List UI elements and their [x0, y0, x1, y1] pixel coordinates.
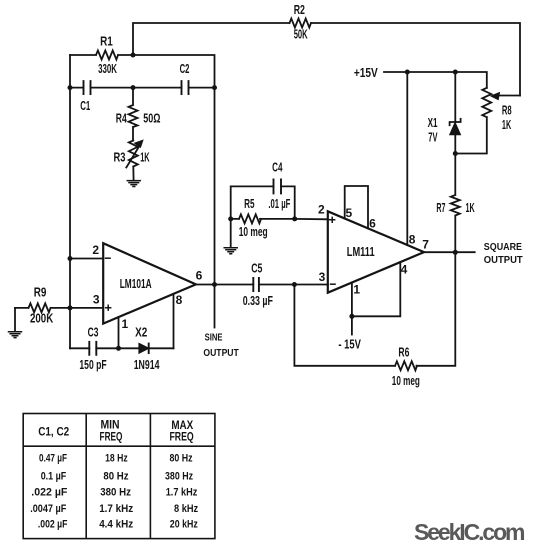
- diode X2 1N914: [139, 344, 149, 354]
- wire LM101A pin 8: [173, 294, 175, 349]
- node square output junction: [453, 250, 458, 255]
- svg-text:10 meg: 10 meg: [392, 374, 420, 388]
- svg-text:3: 3: [93, 293, 100, 307]
- node C5 R6 junction: [292, 282, 297, 287]
- svg-text:R2: R2: [294, 2, 305, 17]
- capacitor C2: [133, 87, 215, 89]
- svg-text:6: 6: [369, 216, 376, 230]
- node pin3 rail junction: [68, 305, 73, 310]
- svg-text:SQUARE: SQUARE: [484, 241, 522, 253]
- svg-text:3: 3: [319, 270, 326, 284]
- svg-text:R3: R3: [114, 150, 126, 165]
- svg-text:0.1 µF: 0.1 µF: [41, 471, 67, 483]
- svg-text:R1: R1: [100, 34, 113, 49]
- svg-text:C2: C2: [180, 61, 190, 76]
- svg-text:SeekIC.com: SeekIC.com: [414, 519, 526, 545]
- plus LM111 pin2: [329, 217, 335, 223]
- svg-text:20 kHz: 20 kHz: [170, 519, 198, 531]
- capacitor C1: [70, 87, 133, 89]
- ground below R9: [9, 332, 22, 338]
- node R1 top junction: [131, 53, 136, 58]
- svg-text:X1: X1: [428, 115, 438, 130]
- resistor R6: [395, 361, 417, 370]
- svg-text:C3: C3: [88, 324, 99, 339]
- capacitor C4: [274, 179, 282, 193]
- wire LM111 pin 7 square output: [424, 251, 475, 253]
- svg-text:2: 2: [92, 243, 99, 257]
- svg-text:6: 6: [196, 269, 203, 283]
- resistor R9: [15, 303, 70, 312]
- wire output LM101A to C5: [196, 284, 295, 286]
- polarity marks: [105, 217, 336, 311]
- svg-text:C5: C5: [251, 261, 262, 276]
- svg-text:330K: 330K: [98, 61, 117, 76]
- svg-text:5: 5: [345, 206, 352, 220]
- capacitor C3: [89, 342, 96, 355]
- op-amp U1 LM101A triangle: [103, 243, 196, 323]
- wire C4 loop: [231, 186, 295, 219]
- resistor R7: [451, 154, 460, 253]
- node C1 left corner: [68, 85, 73, 90]
- svg-text:C1: C1: [80, 98, 90, 113]
- wire R5 to LM111 pin 2: [295, 218, 328, 220]
- node -15V junction: [349, 314, 354, 319]
- wire LM101A pin 1: [118, 317, 120, 348]
- svg-text:80 Hz: 80 Hz: [103, 471, 129, 483]
- svg-text:R5: R5: [244, 196, 254, 211]
- wire top feedback rail: [133, 23, 520, 96]
- svg-text:1N914: 1N914: [134, 358, 160, 372]
- svg-text:R6: R6: [398, 345, 409, 360]
- potentiometer R3: [129, 141, 138, 181]
- wire R1 junction to C2 right: [133, 55, 215, 88]
- wire inverting input LM101A pin 2: [70, 258, 103, 260]
- svg-text:1.7 kHz: 1.7 kHz: [99, 503, 134, 515]
- svg-text:2: 2: [318, 202, 325, 216]
- svg-text:- 15V: - 15V: [338, 337, 361, 351]
- wire middle vertical rail: [214, 88, 216, 285]
- wire noninverting input LM101A pin 3: [70, 307, 103, 309]
- plus LM101A pin3: [105, 305, 111, 311]
- svg-text:0.33 µF: 0.33 µF: [243, 294, 273, 308]
- wire R9 to ground: [14, 308, 16, 332]
- resistor R1: [70, 51, 133, 60]
- svg-text:1K: 1K: [502, 117, 512, 132]
- svg-text:OUTPUT: OUTPUT: [203, 347, 239, 359]
- resistor R2: [290, 19, 312, 28]
- svg-text:380 Hz: 380 Hz: [165, 471, 193, 483]
- node sine output junction: [212, 282, 217, 287]
- svg-text:LM101A: LM101A: [120, 276, 152, 291]
- node R5 C4 left junction: [228, 216, 233, 221]
- wire LM111 pin 5 pin 6 strap: [345, 186, 368, 228]
- svg-text:OUTPUT: OUTPUT: [484, 254, 523, 266]
- minus LM111 pin3: [330, 283, 336, 285]
- svg-text:8: 8: [409, 232, 416, 246]
- resistor R5: [231, 214, 295, 223]
- wire LM111 pin 8 to +15V: [406, 72, 408, 245]
- svg-text:R4: R4: [116, 111, 128, 126]
- svg-text:FREQ: FREQ: [169, 429, 193, 443]
- table frequency chart: [23, 414, 215, 539]
- svg-text:50Ω: 50Ω: [143, 111, 160, 126]
- potentiometer R8: [455, 88, 491, 154]
- svg-text:1K: 1K: [466, 200, 476, 215]
- wire C3 X2 feedback line: [70, 347, 174, 349]
- wire sine output stub: [214, 285, 216, 328]
- node +15V pin8 junction: [405, 70, 410, 75]
- wire +15V rail: [384, 72, 487, 88]
- svg-text:4: 4: [401, 262, 408, 276]
- svg-text:.0047 µF: .0047 µF: [30, 503, 66, 515]
- svg-text:18 Hz: 18 Hz: [105, 453, 128, 465]
- svg-text:8 kHz: 8 kHz: [174, 503, 199, 515]
- svg-text:.022 µF: .022 µF: [31, 487, 67, 499]
- wire LM111 pin 4: [352, 262, 400, 316]
- node R5 C4 right junction: [292, 216, 297, 221]
- svg-text:380 Hz: 380 Hz: [100, 487, 131, 499]
- svg-text:LM111: LM111: [347, 244, 375, 259]
- ground below R5: [224, 248, 237, 254]
- svg-text:+15V: +15V: [354, 66, 378, 80]
- svg-text:0.47 µF: 0.47 µF: [39, 453, 67, 465]
- zener diode X1: [450, 119, 461, 125]
- svg-text:150 pF: 150 pF: [79, 358, 106, 372]
- svg-text:X2: X2: [135, 324, 147, 339]
- svg-text:R9: R9: [34, 285, 47, 300]
- node C1 C2 center junction: [131, 85, 136, 90]
- wire R5 ground stem: [230, 219, 232, 248]
- svg-text:C4: C4: [272, 159, 283, 174]
- svg-text:8: 8: [176, 293, 183, 307]
- svg-text:.002 µF: .002 µF: [38, 519, 68, 531]
- svg-text:50K: 50K: [294, 26, 308, 41]
- svg-text:1: 1: [122, 317, 129, 331]
- svg-text:1.7 kHz: 1.7 kHz: [166, 487, 198, 499]
- wire R6 feedback: [294, 252, 455, 365]
- resistor R4: [129, 88, 138, 141]
- wire R1 left bend: [69, 55, 71, 88]
- svg-text:C1, C2: C1, C2: [38, 425, 69, 439]
- svg-text:1K: 1K: [140, 150, 150, 165]
- wire left rail: [69, 88, 71, 349]
- svg-text:1: 1: [353, 282, 360, 296]
- wire C5 to LM111 pin 3: [294, 284, 327, 286]
- svg-text:10 meg: 10 meg: [239, 225, 268, 239]
- node +15V X1 junction: [453, 70, 458, 75]
- node pin2 rail junction: [68, 256, 73, 261]
- svg-text:R8: R8: [502, 102, 512, 117]
- svg-text:SINE: SINE: [205, 332, 223, 344]
- node pin1 C3 junction: [116, 346, 121, 351]
- node C2 right junction: [212, 85, 217, 90]
- svg-text:FREQ: FREQ: [100, 430, 123, 444]
- wire X1 branch: [454, 72, 456, 122]
- comparator U2 LM111 triangle: [328, 211, 424, 292]
- node X1 R8 R7 junction: [453, 151, 458, 156]
- svg-text:7V: 7V: [428, 129, 437, 144]
- capacitor C5: [253, 278, 259, 291]
- svg-text:7: 7: [422, 238, 429, 252]
- minus LM101A pin2: [105, 257, 111, 259]
- svg-text:R7: R7: [436, 200, 445, 215]
- wire R2 arrow into R8: [497, 95, 520, 97]
- svg-text:80 Hz: 80 Hz: [169, 453, 193, 465]
- wire LM111 pin 1 to -15V: [351, 283, 353, 335]
- svg-text:4.4 kHz: 4.4 kHz: [99, 519, 134, 531]
- svg-text:200K: 200K: [30, 311, 54, 326]
- svg-text:.01 µF: .01 µF: [268, 197, 290, 211]
- ground below R3: [127, 181, 140, 187]
